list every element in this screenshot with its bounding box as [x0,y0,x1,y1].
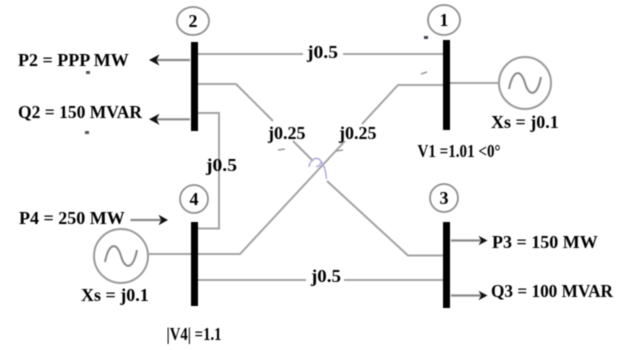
svg-text:V1 =1.01 <0°: V1 =1.01 <0° [418,141,501,161]
svg-text:Q3 = 100 MVAR: Q3 = 100 MVAR [491,281,614,301]
svg-text:j0.5: j0.5 [205,155,237,175]
svg-text:j0.5: j0.5 [306,42,338,62]
svg-text:2: 2 [189,11,198,31]
svg-text:P3 = 150 MW: P3 = 150 MW [492,232,598,252]
svg-text:Xs = j0.1: Xs = j0.1 [491,112,559,132]
svg-text:|V4| =1.1: |V4| =1.1 [167,324,222,344]
svg-text:j0.5: j0.5 [310,266,341,286]
svg-text:P2 = PPP MW: P2 = PPP MW [18,50,129,70]
svg-text:4: 4 [190,189,199,209]
svg-text:P4 = 250 MW: P4 = 250 MW [19,208,125,228]
svg-text:j0.25: j0.25 [267,123,306,143]
svg-text:Xs = j0.1: Xs = j0.1 [81,285,149,305]
svg-text:j0.25: j0.25 [338,123,377,143]
svg-text:3: 3 [440,188,449,208]
svg-text:Q2 = 150 MVAR: Q2 = 150 MVAR [18,102,143,122]
svg-text:1: 1 [440,10,449,30]
